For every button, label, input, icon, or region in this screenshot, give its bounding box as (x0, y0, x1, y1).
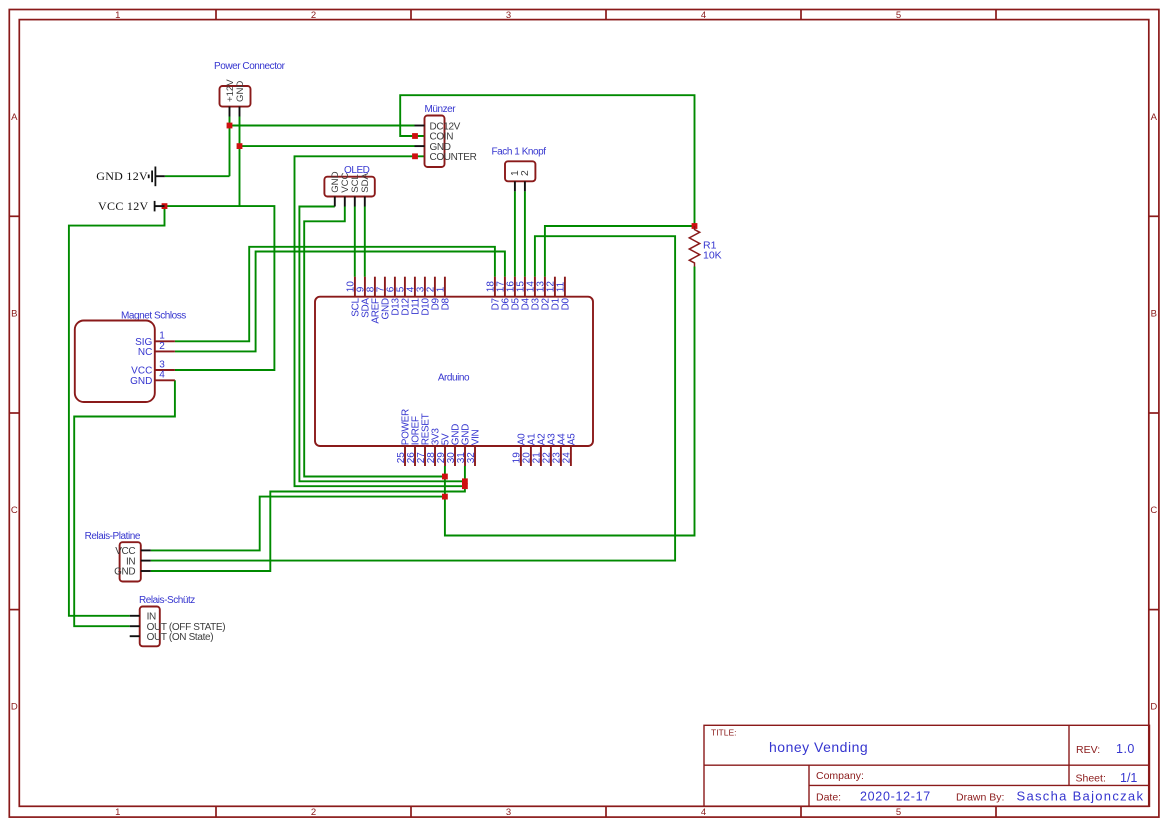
pin 4 D11 (Arduino) (414, 277, 416, 297)
wire (524, 191, 526, 276)
pin OUT (ON State) (Relais-Schütz) (130, 635, 140, 637)
junction (227, 123, 233, 129)
svg-text:A5: A5 (566, 433, 577, 445)
svg-text:Arduino: Arduino (438, 373, 470, 384)
pin 12 D1 (Arduino) (554, 277, 556, 297)
pin 3 VCC (Magnet Schloss) (155, 369, 175, 371)
svg-text:5: 5 (896, 807, 901, 818)
svg-text:3: 3 (506, 10, 511, 21)
wire (299, 207, 465, 482)
wire (545, 226, 695, 277)
pin SDA (OLED) (364, 197, 366, 207)
pin 8 AREF (Arduino) (374, 277, 376, 297)
pin 24 A5 (Arduino) (570, 446, 572, 466)
svg-text:A: A (11, 112, 18, 123)
pin SCL (OLED) (354, 197, 356, 207)
pin 3 D10 (Arduino) (424, 277, 426, 297)
pin 32 VIN (Arduino) (474, 446, 476, 466)
svg-text:Sheet:: Sheet: (1076, 773, 1106, 785)
svg-text:2020-12-17: 2020-12-17 (860, 789, 931, 803)
wire (175, 252, 505, 352)
connector Magnet Schloss (75, 321, 155, 403)
wire (445, 267, 695, 536)
wire (304, 207, 445, 477)
wire (295, 156, 465, 486)
connector OLED (324, 177, 374, 197)
pin VCC (Relais-Platine) (141, 549, 151, 551)
svg-text:4: 4 (159, 370, 165, 381)
svg-text:2: 2 (311, 10, 316, 21)
svg-text:Drawn By:: Drawn By: (956, 791, 1004, 803)
pin IN (Relais-Schütz) (130, 615, 140, 617)
connector Relais-Schütz (140, 607, 160, 647)
junction (692, 223, 698, 229)
svg-text:2: 2 (520, 170, 531, 176)
junction (162, 203, 168, 209)
svg-text:VCC 12V: VCC 12V (98, 199, 148, 213)
svg-text:4: 4 (701, 10, 706, 21)
svg-text:Münzer: Münzer (425, 104, 457, 115)
svg-text:1.0: 1.0 (1116, 742, 1135, 756)
svg-text:4: 4 (701, 807, 706, 818)
svg-text:2: 2 (311, 807, 316, 818)
svg-text:1: 1 (115, 807, 120, 818)
svg-text:11: 11 (556, 281, 567, 292)
junction (237, 143, 243, 149)
svg-text:Relais-Schütz: Relais-Schütz (139, 595, 195, 606)
svg-text:IN: IN (126, 556, 135, 567)
junction (462, 478, 468, 484)
pin GND (Power Connector) (239, 107, 241, 117)
junction (462, 483, 468, 489)
svg-text:1/1: 1/1 (1120, 771, 1137, 785)
svg-text:Date:: Date: (816, 791, 841, 803)
pin IN (Relais-Platine) (141, 560, 151, 562)
svg-text:OUT (ON State): OUT (ON State) (147, 632, 214, 643)
svg-text:GND: GND (235, 81, 246, 102)
pin 20 A1 (Arduino) (530, 446, 532, 466)
connector Power Connector (220, 86, 251, 107)
pin 2 (Fach) (524, 181, 526, 191)
pin 27 RESET (Arduino) (424, 446, 426, 466)
svg-text:2: 2 (159, 341, 165, 352)
wire (151, 497, 445, 551)
svg-text:A: A (1151, 112, 1158, 123)
pin 21 A2 (Arduino) (540, 446, 542, 466)
svg-text:D0: D0 (560, 298, 571, 311)
svg-text:1: 1 (436, 286, 447, 292)
svg-text:5: 5 (896, 10, 901, 21)
junction (412, 153, 418, 159)
junction (442, 474, 448, 480)
svg-text:SDA: SDA (360, 172, 371, 192)
pin 22 A3 (Arduino) (550, 446, 552, 466)
svg-text:Sascha Bajonczak: Sascha Bajonczak (1017, 788, 1145, 803)
pin GND (Münzer) (415, 145, 425, 147)
title block (704, 725, 1150, 806)
pin VCC (OLED) (344, 197, 346, 207)
junction (412, 133, 418, 139)
svg-text:24: 24 (562, 452, 573, 464)
IC U? Arduino (315, 297, 593, 446)
svg-text:Power Connector: Power Connector (214, 61, 286, 72)
junction (442, 494, 448, 500)
pin +12V (229, 107, 231, 117)
svg-text:REV:: REV: (1076, 744, 1100, 756)
svg-text:D: D (11, 701, 18, 712)
svg-text:NC: NC (138, 347, 152, 358)
pin DC12V (415, 125, 425, 127)
pin 30 GND (Arduino) (454, 446, 456, 466)
svg-text:Fach 1 Knopf: Fach 1 Knopf (492, 147, 547, 158)
svg-text:D8: D8 (440, 298, 451, 311)
svg-text:honey Vending: honey Vending (769, 739, 868, 755)
pin 1 (Fach) (514, 181, 516, 191)
pin 18 D7 (Arduino) (494, 277, 496, 297)
svg-text:1: 1 (115, 10, 120, 21)
pin 31 GND (Arduino) (464, 446, 466, 466)
svg-text:Company:: Company: (816, 770, 864, 782)
pin 28 3V3 (Arduino) (434, 446, 436, 466)
pin 10 SCL (Arduino) (354, 277, 356, 297)
pin 11 D0 (Arduino) (564, 277, 566, 297)
pin 25 POWER (Arduino) (404, 446, 406, 466)
wire (151, 236, 675, 560)
pin 13 D2 (Arduino) (544, 277, 546, 297)
svg-text:TITLE:: TITLE: (711, 728, 737, 738)
wire (514, 191, 516, 276)
pin 2 NC (Magnet Schloss) (155, 350, 175, 352)
svg-text:VIN: VIN (471, 429, 482, 445)
wire (240, 145, 415, 147)
wire (400, 95, 694, 226)
pin 2 D9 (Arduino) (434, 277, 436, 297)
svg-text:GND: GND (130, 376, 152, 387)
pin GND (OLED) (334, 197, 336, 207)
svg-text:B: B (1151, 308, 1157, 319)
wire (239, 117, 241, 207)
svg-text:32: 32 (466, 452, 477, 464)
pin 14 D3 (Arduino) (534, 277, 536, 297)
power symbol GND 12V (149, 167, 165, 187)
wire (151, 466, 465, 571)
wire (165, 206, 275, 370)
pin 7 GND (Arduino) (384, 277, 386, 297)
pin 15 D4 (Arduino) (524, 277, 526, 297)
svg-text:GND 12V: GND 12V (96, 169, 148, 183)
svg-text:GND: GND (114, 567, 135, 578)
svg-text:COUNTER: COUNTER (430, 152, 477, 163)
svg-text:D: D (1150, 701, 1157, 712)
svg-text:B: B (11, 308, 17, 319)
svg-text:10K: 10K (703, 250, 722, 262)
wire (69, 206, 165, 616)
svg-text:C: C (11, 505, 18, 516)
wire (364, 207, 366, 277)
pin 17 D6 (Arduino) (504, 277, 506, 297)
connector Fach 1 Knopf (505, 161, 535, 181)
wire (354, 207, 356, 277)
wire (229, 117, 231, 177)
pin 19 A0 (Arduino) (520, 446, 522, 466)
pin 1 D8 (Arduino) (444, 277, 446, 297)
resistor R1 (689, 226, 699, 267)
pin GND (Relais-Platine) (141, 570, 151, 572)
svg-text:3: 3 (506, 807, 511, 818)
connector Münzer (425, 116, 445, 168)
connector Relais-Platine (120, 542, 141, 581)
pin 29 5V (Arduino) (444, 446, 446, 466)
pin 16 D5 (Arduino) (514, 277, 516, 297)
pin 9 SDA (Arduino) (364, 277, 366, 297)
pin 5 D12 (Arduino) (404, 277, 406, 297)
svg-text:C: C (1150, 505, 1157, 516)
power symbol VCC 12V (155, 201, 165, 212)
svg-text:IN: IN (147, 612, 156, 623)
wire (165, 175, 230, 177)
svg-text:Relais-Platine: Relais-Platine (85, 531, 141, 542)
wire (175, 247, 495, 341)
pin 4 GND (Magnet Schloss) (155, 379, 175, 381)
pin 23 A4 (Arduino) (560, 446, 562, 466)
pin 6 D13 (Arduino) (394, 277, 396, 297)
pin 1 SIG (Magnet Schloss) (155, 340, 175, 342)
pin OUT (OFF STATE) (Relais-Schütz) (130, 625, 140, 627)
wire (74, 380, 175, 626)
wire (230, 125, 415, 127)
pin 26 IOREF (Arduino) (414, 446, 416, 466)
